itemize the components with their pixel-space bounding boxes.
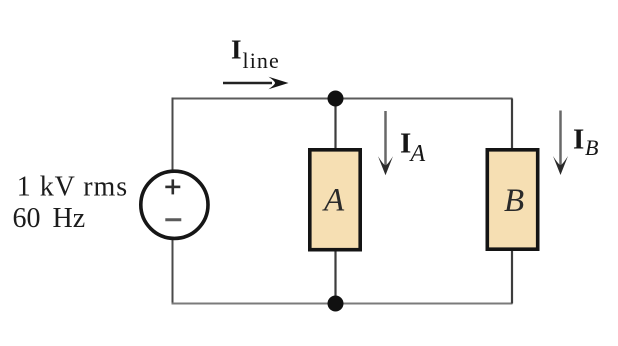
source value label 1 kV rms 60 Hz: [13, 172, 129, 235]
current arrow I_line head: [269, 77, 289, 89]
svg-text:60 Hz: 60 Hz: [13, 203, 86, 234]
svg-text:B: B: [585, 135, 598, 160]
svg-text:A: A: [409, 141, 426, 167]
load A box: [310, 150, 360, 250]
svg-text:1 kV rms: 1 kV rms: [17, 172, 128, 203]
svg-text:I: I: [573, 124, 584, 156]
wire left vertical lower: [172, 239, 174, 305]
svg-text:line: line: [243, 48, 280, 73]
current arrow I_B shaft: [559, 111, 562, 167]
label I_A: [400, 128, 426, 168]
wire bottom horizontal: [172, 303, 513, 305]
current arrow I_B head: [553, 156, 568, 175]
wire left vertical upper: [172, 98, 174, 172]
svg-text:B: B: [504, 183, 524, 219]
load B box: [487, 150, 537, 249]
wire branch A upper: [334, 99, 336, 150]
current arrow I_A head: [378, 156, 393, 175]
wire branch B upper: [511, 99, 513, 150]
wire branch B lower: [511, 251, 513, 304]
voltage source plus sign: [165, 179, 180, 194]
label I_line: [231, 35, 280, 74]
voltage source V1 circle: [141, 171, 208, 238]
voltage source minus sign: [165, 218, 181, 221]
current arrow I_line shaft: [223, 82, 272, 84]
node junction dot top: [328, 91, 344, 107]
wire branch A lower: [334, 251, 336, 304]
node junction dot bottom: [328, 296, 344, 312]
svg-text:I: I: [231, 35, 242, 65]
current arrow I_A shaft: [384, 111, 387, 167]
label I_B: [573, 124, 598, 161]
wire top horizontal: [173, 98, 513, 100]
svg-text:A: A: [322, 183, 345, 219]
